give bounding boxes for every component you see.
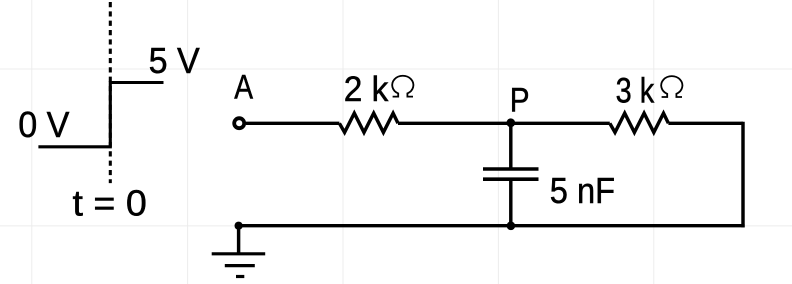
omega symbol for R1 (392, 76, 413, 97)
wire capacitor to bottom wire (509, 179, 512, 226)
wire bottom horizontal (239, 224, 745, 227)
terminal A open circle (234, 118, 244, 128)
ground bar 1 (212, 252, 266, 255)
dashed time axis t=0 (109, 2, 112, 183)
wire A to R1 (246, 122, 339, 125)
capacitor C1 top plate (483, 167, 539, 170)
svg-text:0 V: 0 V (18, 104, 69, 145)
resistor R2 3 kOhm zigzag (610, 113, 669, 132)
grid line vertical 2 (187, 0, 189, 284)
grid line vertical 3 (342, 0, 344, 284)
omega symbol for R2 (661, 76, 682, 97)
capacitor C1 bottom plate (483, 177, 539, 181)
grid line vertical 4 (497, 0, 499, 284)
svg-text:2 k: 2 k (344, 70, 389, 109)
grid line vertical 1 (31, 0, 33, 284)
wire right vertical (741, 122, 744, 228)
svg-text:5 V: 5 V (149, 40, 200, 81)
wire R1 to R2 (through node P) (398, 122, 610, 125)
svg-text:5 nF: 5 nF (550, 170, 615, 211)
grid line horizontal 2 (0, 225, 792, 227)
node P junction dot (506, 118, 515, 127)
ground bar 3 (236, 275, 244, 278)
svg-text:A: A (234, 68, 253, 106)
wire R2 to right corner (668, 122, 743, 125)
ground junction dot (235, 222, 243, 230)
resistor R1 2 kOhm zigzag (339, 113, 398, 132)
svg-text:P: P (510, 81, 530, 119)
grid line horizontal 1 (0, 68, 792, 70)
svg-text:t = 0: t = 0 (73, 182, 147, 223)
ground stub wire (237, 226, 240, 254)
svg-text:3 k: 3 k (616, 72, 655, 111)
step waveform (38, 83, 163, 147)
junction dot below capacitor (507, 222, 516, 231)
wire P down to capacitor (509, 123, 512, 169)
ground bar 2 (225, 264, 255, 267)
grid line vertical 5 (653, 0, 655, 284)
